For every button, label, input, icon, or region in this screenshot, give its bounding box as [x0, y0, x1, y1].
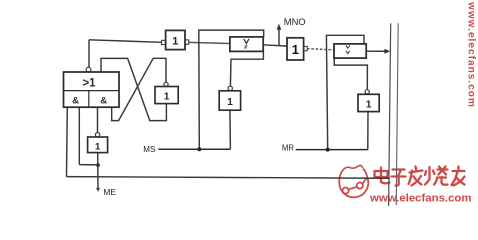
svg-text:&: & — [100, 96, 107, 107]
svg-text:www.elecfans.com: www.elecfans.com — [466, 1, 477, 108]
svg-text:1: 1 — [366, 99, 372, 110]
svg-text:MR: MR — [282, 143, 294, 152]
svg-text:1: 1 — [164, 92, 170, 103]
svg-text:MS: MS — [143, 145, 155, 154]
svg-text:&: & — [72, 96, 79, 107]
svg-text:1: 1 — [172, 36, 178, 48]
svg-text:ME: ME — [103, 187, 116, 197]
svg-text:1: 1 — [227, 97, 233, 108]
svg-text:www.elecfans.com: www.elecfans.com — [369, 193, 472, 205]
svg-text:1: 1 — [95, 141, 101, 152]
svg-text:MNO: MNO — [284, 16, 306, 27]
svg-text:1: 1 — [292, 42, 299, 57]
svg-text:>1: >1 — [82, 78, 96, 90]
